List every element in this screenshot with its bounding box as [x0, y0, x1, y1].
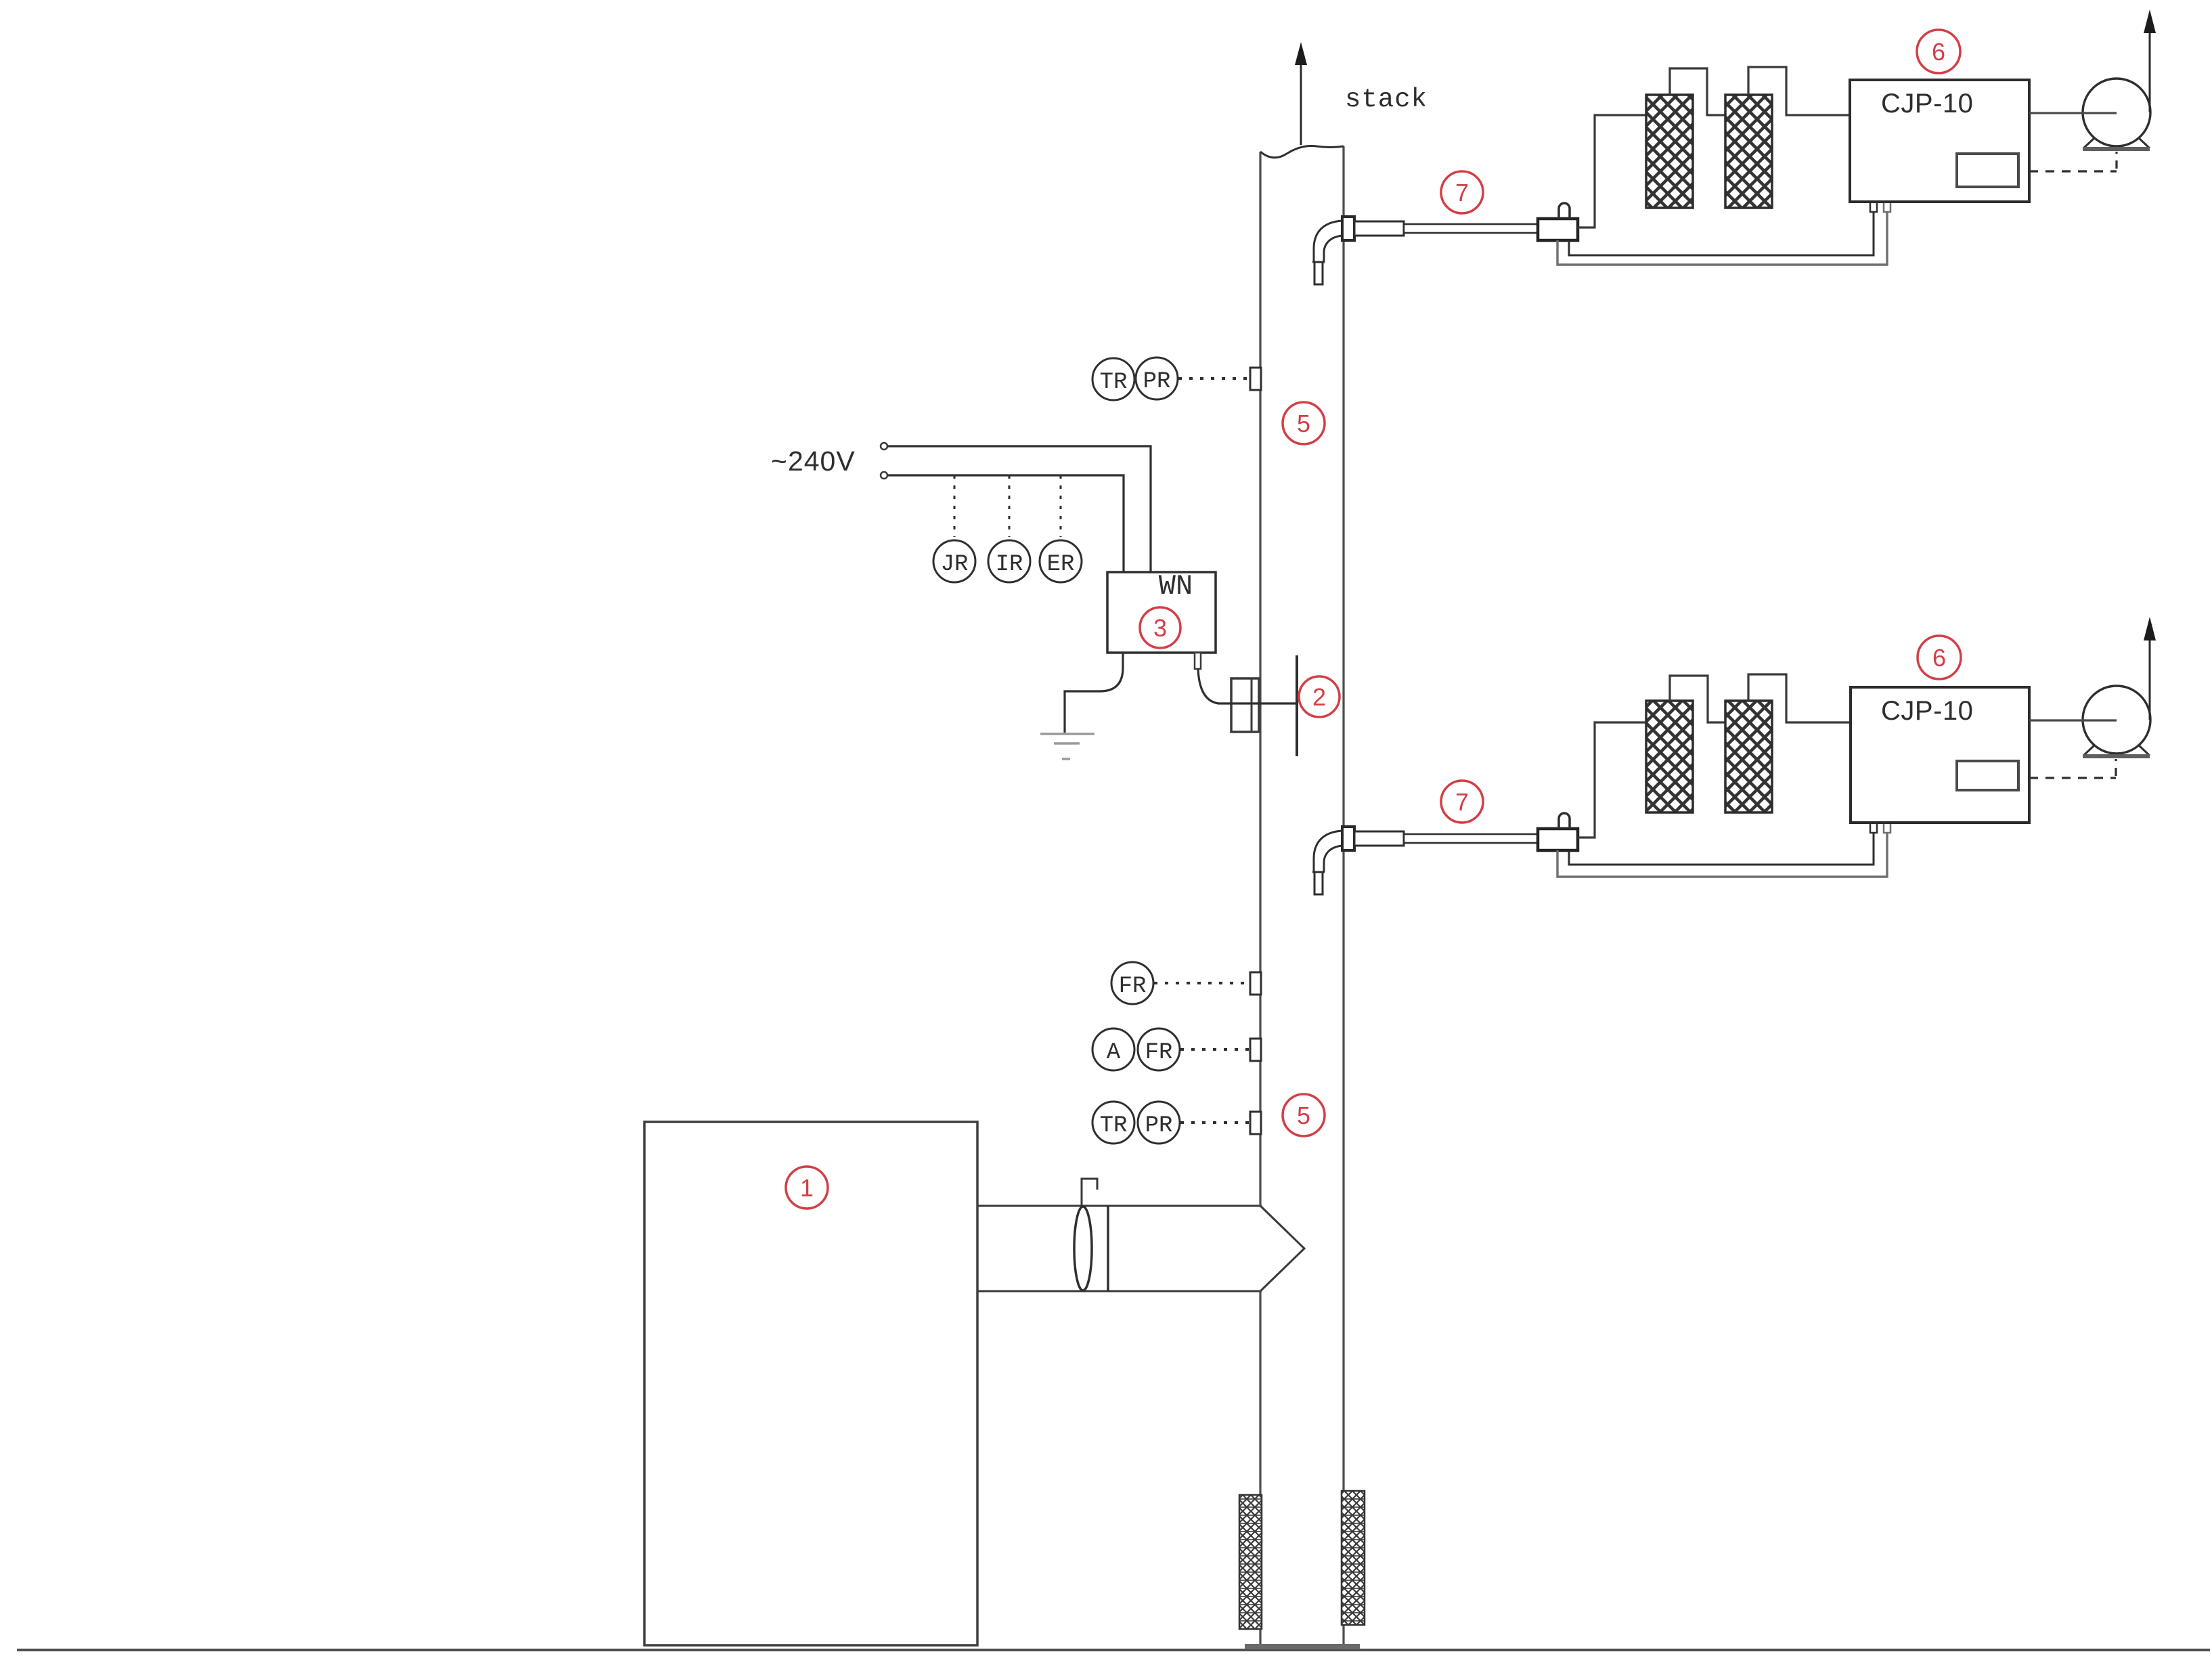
- igniter feedthrough box: [1231, 678, 1259, 732]
- lower control dashed line: [2029, 759, 2116, 778]
- sensor FR: [1111, 962, 1153, 1004]
- earth ground symbol: [1040, 734, 1094, 759]
- stack base plate: [1245, 1644, 1360, 1649]
- svg-text:ER: ER: [1047, 552, 1075, 578]
- svg-text:A: A: [1107, 1040, 1121, 1066]
- furnace box: [644, 1122, 977, 1645]
- lower pump: [2083, 686, 2150, 754]
- label 6 upper: [1917, 30, 1960, 73]
- lower fitting loop: [1559, 813, 1570, 829]
- svg-text:FR: FR: [1145, 1040, 1173, 1066]
- label 5 lower: [1283, 1094, 1325, 1136]
- svg-text:IR: IR: [996, 552, 1023, 578]
- wall tap FR: [1250, 972, 1261, 995]
- supply wire top: [887, 446, 1151, 572]
- svg-text:TR: TR: [1100, 1113, 1128, 1139]
- relay ER: [1040, 540, 1082, 582]
- svg-text:5: 5: [1297, 1102, 1310, 1129]
- dotted signal line upper TRPR: [1178, 377, 1249, 380]
- upper filter 2: [1725, 95, 1772, 208]
- stack heater strip left: [1239, 1495, 1262, 1629]
- svg-text:stack: stack: [1345, 85, 1428, 114]
- dotted signal line AFR: [1180, 1048, 1249, 1051]
- label 7 lower: [1441, 781, 1483, 823]
- lower pump exhaust: [2144, 617, 2156, 720]
- lower filter bridge 1: [1670, 676, 1725, 722]
- svg-text:WN: WN: [1159, 570, 1193, 603]
- lower pump suction line: [2029, 719, 2117, 721]
- upper probe fitting: [1538, 219, 1578, 240]
- lower filter 2: [1725, 701, 1772, 812]
- lower probe fitting: [1538, 829, 1578, 850]
- sensor PR lower: [1138, 1102, 1180, 1144]
- svg-text:5: 5: [1297, 410, 1310, 437]
- upper filter 1: [1646, 95, 1693, 208]
- WN igniter transformer box: [1107, 572, 1216, 653]
- igniter lead wire: [1198, 669, 1297, 703]
- sensor A: [1092, 1028, 1134, 1070]
- stack left wall: [1259, 152, 1261, 1645]
- svg-text:6: 6: [1932, 38, 1945, 66]
- svg-text:PR: PR: [1145, 1113, 1173, 1139]
- lower filter bridge 2: [1748, 674, 1851, 722]
- stack wavy top: [1260, 146, 1344, 157]
- upper pump exhaust: [2144, 9, 2156, 112]
- svg-text:3: 3: [1153, 614, 1167, 642]
- WN right lead connector: [1195, 653, 1201, 669]
- upper pump stand: [2083, 138, 2150, 149]
- damper ellipse in duct: [1074, 1207, 1092, 1290]
- upper CJP port A: [1870, 202, 1877, 212]
- lower probe line tube: [1404, 834, 1539, 843]
- label 7 upper: [1441, 171, 1483, 213]
- lower CJP-10 analyzer box: [1851, 687, 2029, 823]
- lower probe flange: [1342, 827, 1354, 850]
- relay IR: [988, 540, 1030, 582]
- lower pump stand: [2083, 745, 2150, 756]
- duct from furnace to stack: [978, 1206, 1262, 1291]
- supply wire bottom: [887, 475, 1124, 572]
- upper CJP display window: [1957, 154, 2018, 187]
- svg-text:~240V: ~240V: [771, 446, 856, 477]
- relay drop line IR: [1009, 475, 1011, 537]
- stack right wall: [1342, 146, 1344, 1645]
- svg-text:CJP-10: CJP-10: [1881, 696, 1973, 726]
- sensor PR upper: [1136, 357, 1178, 399]
- stack exit arrow: [1295, 42, 1307, 145]
- lower CJP port A: [1870, 823, 1877, 833]
- relay drop line ER: [1060, 475, 1062, 537]
- upper CJP-10 analyzer box: [1850, 80, 2029, 202]
- dotted signal line FR: [1154, 982, 1249, 984]
- svg-text:CJP-10: CJP-10: [1881, 89, 1973, 118]
- relay JR: [933, 540, 975, 582]
- lower probe nozzle in stack: [1312, 831, 1342, 894]
- wall tap lower TRPR: [1250, 1112, 1261, 1134]
- svg-text:7: 7: [1455, 179, 1469, 207]
- label 5 upper: [1283, 402, 1325, 444]
- lower return line A: [1569, 832, 1874, 865]
- wall tap AFR: [1250, 1039, 1261, 1061]
- lower CJP port B: [1884, 823, 1890, 833]
- lower CJP display window: [1957, 761, 2018, 790]
- upper probe outer tube: [1354, 221, 1404, 236]
- svg-text:2: 2: [1312, 683, 1326, 711]
- stack heater strip right: [1342, 1491, 1365, 1625]
- label 2: [1299, 676, 1340, 717]
- upper return line A: [1569, 211, 1874, 255]
- svg-text:FR: FR: [1119, 974, 1147, 999]
- upper fitting loop: [1559, 203, 1570, 219]
- WN left lead to earth: [1065, 653, 1123, 733]
- damper plate line: [1107, 1206, 1109, 1291]
- upper probe nozzle in stack: [1312, 221, 1342, 284]
- upper return line B: [1557, 211, 1887, 265]
- label 6 lower: [1918, 636, 1961, 679]
- upper filter bridge 1: [1670, 68, 1725, 115]
- sensor TR lower: [1092, 1102, 1134, 1144]
- upper CJP port B: [1884, 202, 1890, 212]
- label 3: [1140, 607, 1180, 648]
- upper sample line to filters: [1578, 115, 1646, 227]
- feedthrough inner line: [1251, 678, 1253, 732]
- upper filter bridge 2: [1748, 67, 1850, 115]
- supply terminal top: [881, 443, 887, 450]
- lower return line B: [1557, 832, 1887, 877]
- svg-text:JR: JR: [941, 552, 969, 578]
- sensor FR2: [1138, 1028, 1180, 1070]
- upper pump: [2083, 79, 2150, 146]
- svg-text:6: 6: [1932, 644, 1946, 672]
- upper probe line tube: [1404, 224, 1539, 233]
- label 1: [786, 1167, 828, 1209]
- sensor TR upper: [1092, 358, 1134, 400]
- wall tap upper: [1250, 368, 1261, 390]
- relay drop line JR: [954, 475, 956, 537]
- lower sample line to filters: [1578, 722, 1646, 838]
- svg-text:7: 7: [1455, 788, 1469, 816]
- svg-text:PR: PR: [1143, 369, 1171, 395]
- igniter electrode rod: [1296, 655, 1298, 756]
- lower filter 1: [1646, 701, 1693, 812]
- upper probe flange: [1342, 217, 1354, 240]
- upper control dashed line: [2029, 152, 2117, 171]
- supply terminal bottom: [881, 472, 887, 479]
- svg-text:1: 1: [800, 1174, 814, 1202]
- duct arrowhead into stack: [1260, 1206, 1304, 1291]
- ground line: [17, 1649, 2210, 1651]
- dotted signal line lower TRPR: [1180, 1121, 1249, 1124]
- damper handle: [1082, 1179, 1097, 1206]
- lower probe outer tube: [1354, 831, 1404, 846]
- upper pump suction line: [2029, 112, 2117, 114]
- svg-text:TR: TR: [1100, 370, 1128, 395]
